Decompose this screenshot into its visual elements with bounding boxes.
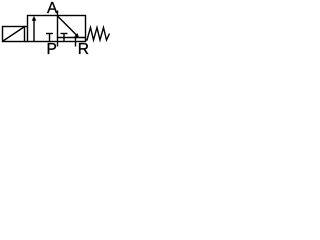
- solenoid box to valve connector bottom: [25, 41, 28, 43]
- port R stub: [75, 38, 77, 47]
- svg-text:A: A: [47, 0, 58, 17]
- port A stub: [57, 11, 59, 16]
- right square horizontal flow line: [58, 37, 86, 39]
- left square blocked port T: [49, 34, 51, 42]
- solenoid box: [3, 27, 25, 42]
- valve center divider: [57, 16, 59, 42]
- left square flow arrow (P to A): [32, 16, 37, 42]
- right square blocked port T: [63, 34, 65, 42]
- svg-text:R: R: [78, 41, 89, 58]
- right square exhaust diagonal with arrow: [58, 17, 79, 38]
- solenoid diagonal: [3, 27, 24, 41]
- port P stub: [57, 42, 59, 47]
- svg-text:P: P: [47, 41, 57, 58]
- solenoid box to valve connector top: [25, 26, 28, 28]
- valve body outline: [28, 16, 86, 42]
- return spring: [86, 28, 110, 41]
